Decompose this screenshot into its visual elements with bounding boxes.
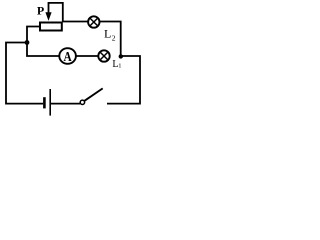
switch pivot circle [80,100,84,104]
wire: battery to switch [51,103,80,105]
battery long plate (positive) [49,89,51,116]
background [0,0,151,117]
switch lever [85,88,103,100]
svg-text:P: P [37,4,44,18]
wire: ammeter to lamp L1 [76,55,99,57]
lamp L2 [88,16,99,27]
wire: battery feed going left and down the outer left side [6,43,43,104]
svg-text:L: L [104,27,111,41]
junction dot (right) [119,54,123,58]
lamp L1 [98,50,109,61]
wire: slider top loop to lamp L2 branch [49,3,89,22]
svg-text:2: 2 [112,33,116,42]
resistor box (rheostat) R [40,23,62,31]
battery short plate (negative) [43,97,46,108]
ammeter A [59,48,76,65]
junction dot (left) [25,40,30,45]
wire: bus left of box down to ammeter branch [27,27,59,57]
svg-text:A: A [64,50,73,65]
wire: switch right to bottom-right corner and up the outer right side [107,56,140,104]
wire: right bus from L2 branch down to junction [99,22,120,57]
slider arrowhead of rheostat P [45,12,51,21]
svg-text:1: 1 [118,62,121,69]
